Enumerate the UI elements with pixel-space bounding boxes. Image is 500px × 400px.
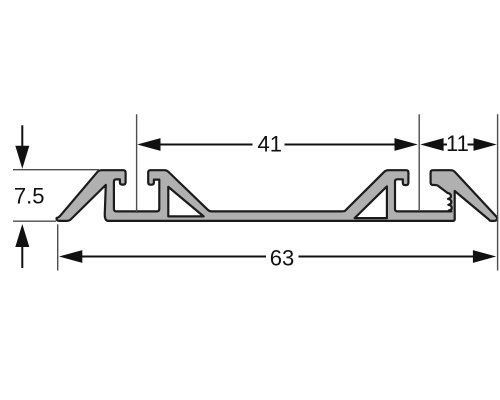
arrowhead 11 right (474, 138, 497, 151)
dimension line 41 (right segment) (285, 144, 398, 146)
extension line left slot center (x=136.6) (136, 114, 138, 213)
arrowhead 41 right (395, 138, 418, 151)
dimension line 11 (right stub) (468, 144, 476, 146)
arrowhead 7.5 up (15, 224, 29, 247)
svg-text:63: 63 (270, 245, 294, 270)
extension line profile top (horizontal, y=169.7) (13, 169, 99, 171)
aluminium track profile cross-section (gray extrusion body with two C-channels) (57, 170, 498, 221)
extension line profile bottom (horizontal, y=221.2) (13, 220, 56, 222)
extension line left profile edge (x=57.7) (57, 224, 59, 270)
arrowhead 63 right (473, 250, 496, 263)
dimension 7.5 lower arrow shaft (21, 247, 23, 269)
dimension line 63 (left segment) (80, 256, 266, 258)
dimension line 11 (left stub) (441, 144, 447, 146)
svg-text:11: 11 (446, 131, 469, 156)
arrowhead 41 left (137, 138, 160, 151)
extension line right slot center (x=419.2) (418, 114, 420, 211)
arrowhead 7.5 down (15, 146, 29, 169)
extension line right profile edge (x=497.6) (497, 114, 499, 270)
arrowhead 63 left (59, 250, 82, 263)
dimension 7.5 upper arrow shaft (21, 125, 23, 147)
dimension line 63 (right segment) (299, 256, 476, 258)
svg-text:7.5: 7.5 (14, 183, 45, 208)
svg-text:41: 41 (257, 132, 281, 157)
arrowhead 11 left (420, 138, 443, 151)
dimension line 41 (left segment) (158, 144, 253, 146)
